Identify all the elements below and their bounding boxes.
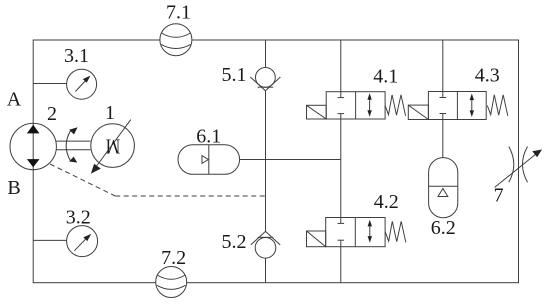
svg-text:5.1: 5.1: [222, 64, 247, 86]
svg-text:4.1: 4.1: [373, 66, 398, 88]
svg-text:2: 2: [47, 103, 57, 125]
svg-text:6.1: 6.1: [196, 125, 221, 147]
svg-text:5.2: 5.2: [222, 231, 247, 253]
svg-text:M: M: [106, 134, 121, 158]
svg-text:7.2: 7.2: [161, 247, 186, 269]
svg-text:7.1: 7.1: [166, 2, 191, 24]
svg-text:3.2: 3.2: [66, 206, 91, 228]
svg-text:7: 7: [494, 185, 504, 207]
svg-text:3.1: 3.1: [64, 45, 89, 67]
svg-text:A: A: [7, 88, 22, 110]
svg-text:1: 1: [105, 102, 115, 124]
svg-text:B: B: [7, 177, 20, 199]
svg-text:4.3: 4.3: [475, 64, 500, 86]
svg-text:4.2: 4.2: [374, 191, 399, 213]
svg-text:6.2: 6.2: [431, 217, 456, 239]
